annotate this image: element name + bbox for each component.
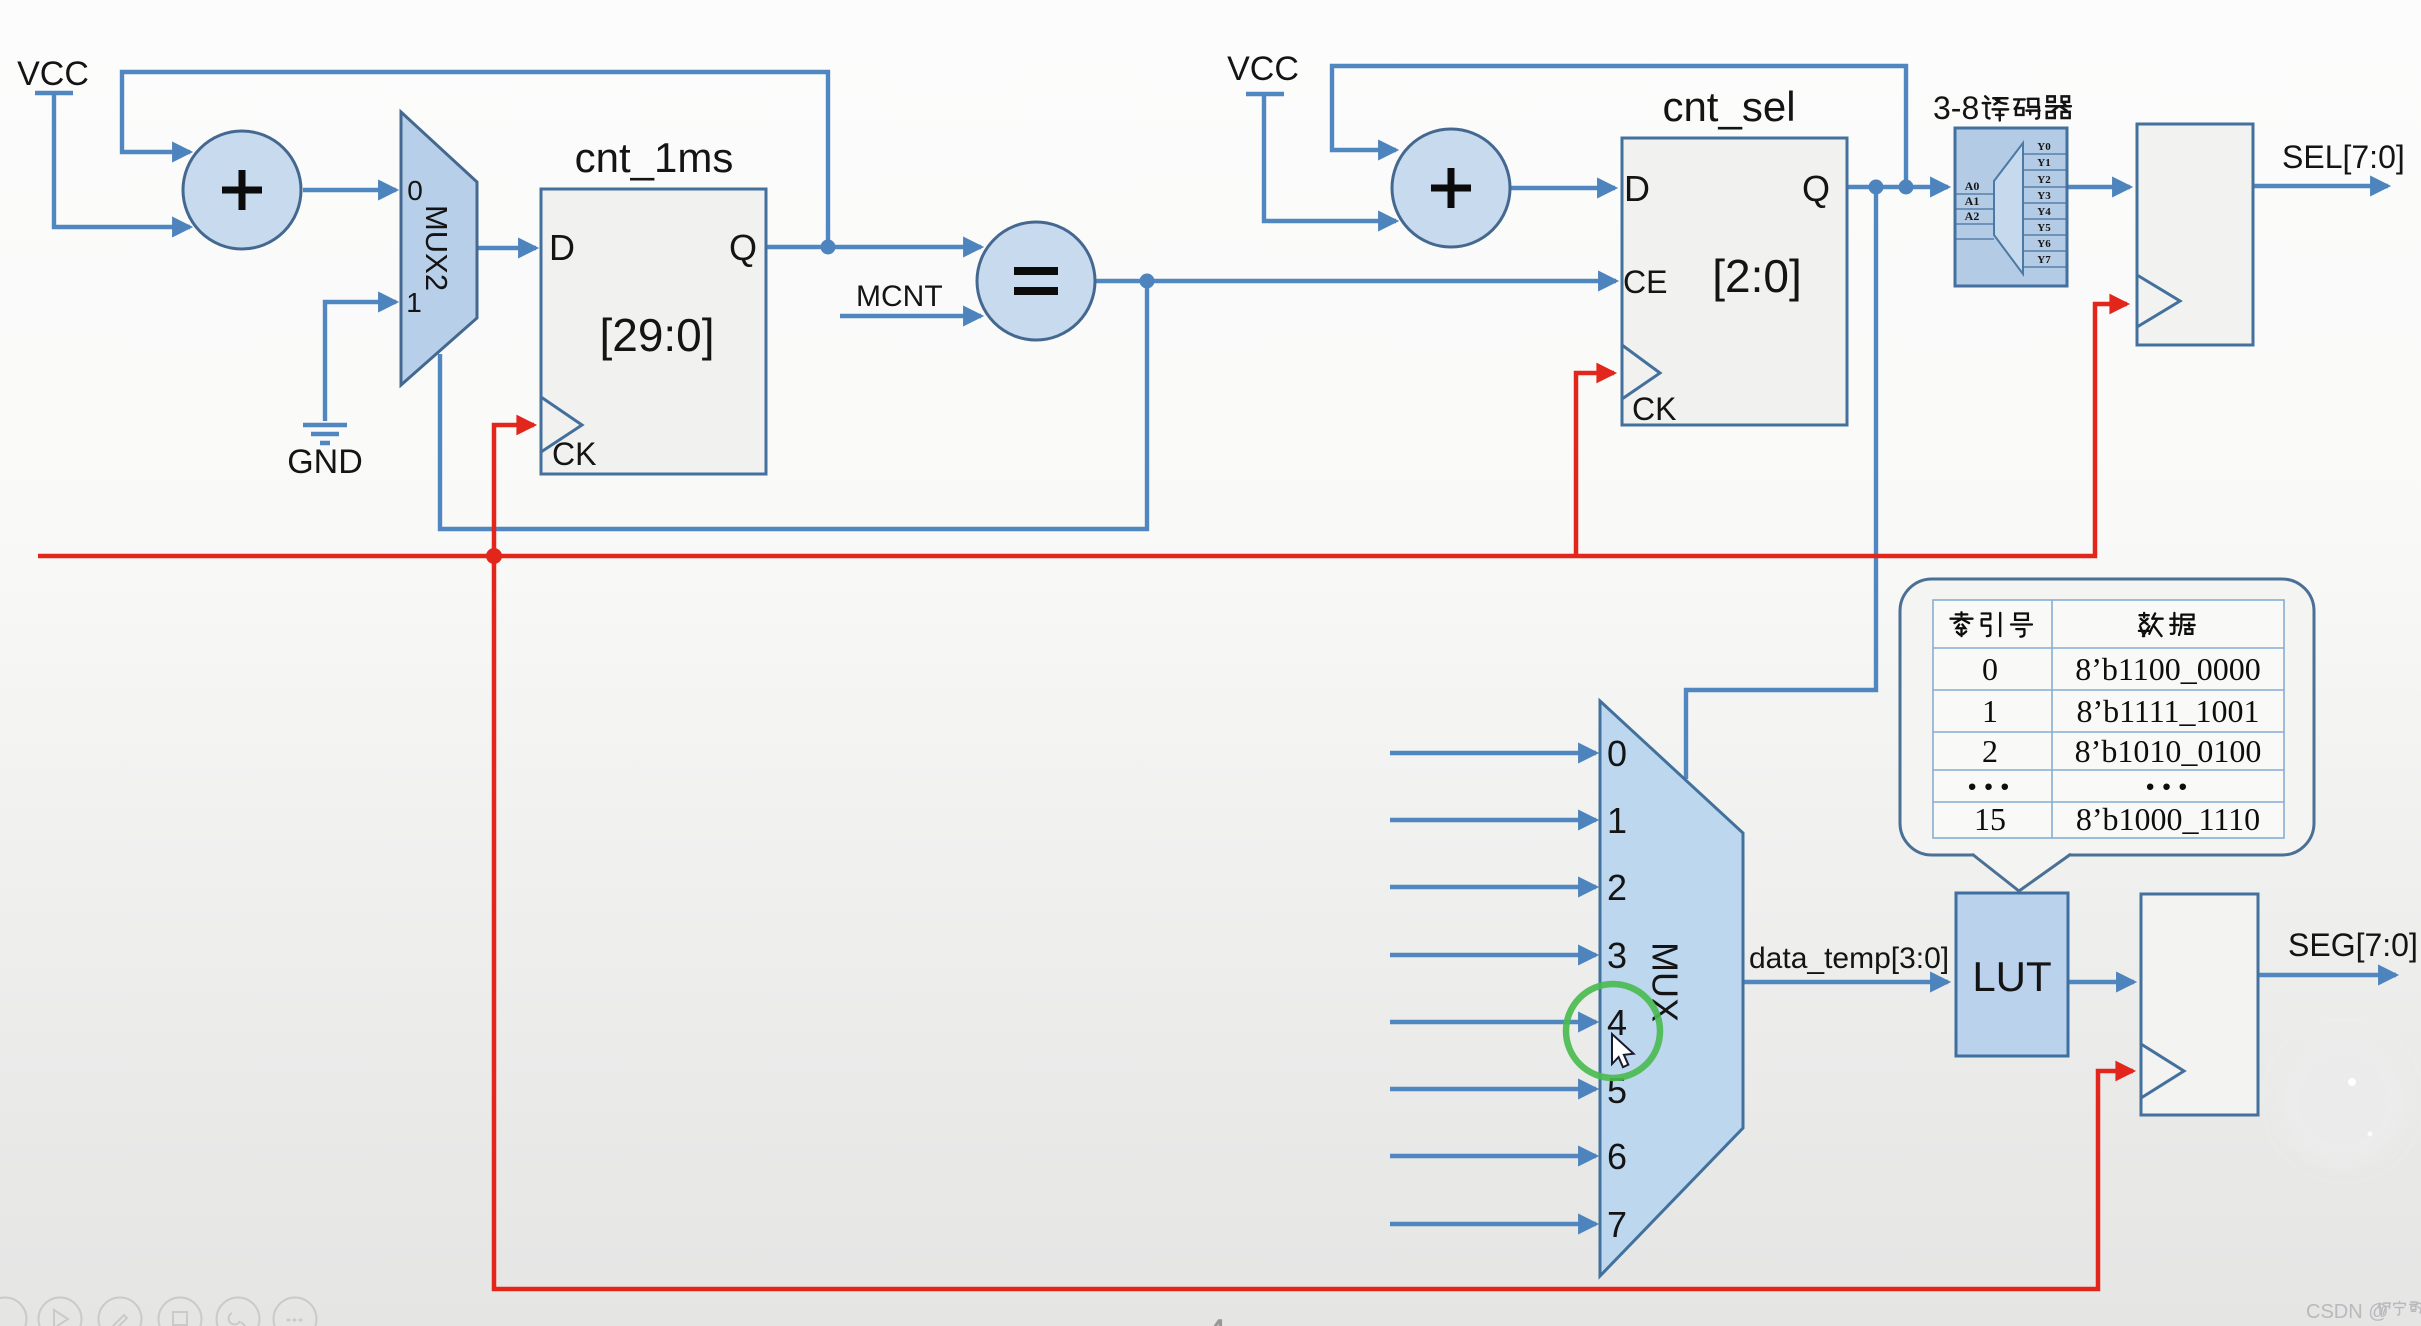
decoder output dividers: [2023, 154, 2067, 267]
node junction comparator output: [1140, 274, 1155, 289]
svg-text:CSDN @: CSDN @: [2306, 1301, 2389, 1323]
svg-text:D: D: [1624, 168, 1650, 209]
wire red branch to cnt_sel clock: [1576, 373, 1614, 556]
svg-text:D: D: [549, 227, 575, 268]
mouse cursor: [1612, 1034, 1634, 1067]
svg-text:8’b1111_1001: 8’b1111_1001: [2076, 693, 2259, 729]
svg-text:A1: A1: [1965, 194, 1980, 208]
decoder pin labels A0 A1 A2: [1965, 179, 1980, 223]
decoder input dividers: [1955, 194, 1994, 239]
svg-text:CE: CE: [1623, 264, 1667, 300]
counter cnt_1ms: [541, 189, 766, 474]
wire feedback Q cnt_sel to adder A2: [1332, 66, 1906, 187]
svg-text:Y3: Y3: [2037, 190, 2051, 202]
clock input triangle R2: [2141, 1044, 2184, 1098]
svg-text:data_temp[3:0]: data_temp[3:0]: [1749, 942, 1949, 975]
wire MUX input 2: [1390, 885, 1596, 889]
clock input triangle R1: [2137, 275, 2180, 327]
wire MUX input 6: [1390, 1154, 1596, 1158]
faint player control buttons: [0, 1298, 317, 1326]
svg-text:0: 0: [407, 175, 423, 206]
wire adder A2 output to D of cnt_sel: [1510, 186, 1615, 190]
wire Q cnt_1ms to comparator: [766, 245, 981, 249]
wire MUX output data_temp to LUT: [1743, 980, 1948, 984]
node junction Q cnt_sel B: [1899, 180, 1914, 195]
svg-text:Q: Q: [1802, 168, 1830, 209]
decoder 3-8 box: [1955, 128, 2067, 286]
svg-text:Y1: Y1: [2037, 157, 2050, 169]
wire Q cnt_sel to decoder: [1847, 185, 1948, 189]
wire comparator output to CE of cnt_sel: [1095, 279, 1616, 283]
bubble tail: [1972, 852, 2071, 891]
svg-text:1: 1: [1607, 800, 1627, 841]
wire MUX input 0: [1390, 751, 1596, 755]
power VCC2 wire: [1246, 94, 1396, 221]
wire comparator output feedback to MUX2 select: [440, 281, 1147, 529]
svg-text:7: 7: [1607, 1204, 1627, 1245]
svg-text:A0: A0: [1965, 179, 1980, 193]
wire LUT output to register R2: [2068, 980, 2134, 984]
wire SEG output: [2258, 973, 2396, 977]
wire ground to MUX2 input 1: [325, 302, 396, 421]
wire MUX2 output to D of cnt_1ms: [477, 246, 536, 250]
svg-text:[2:0]: [2:0]: [1712, 250, 1802, 302]
svg-text:4: 4: [1204, 1310, 1227, 1326]
LUT box: [1956, 893, 2068, 1056]
wire MUX input 4: [1390, 1020, 1596, 1024]
wire adder A1 output to MUX2 input 0: [303, 188, 396, 192]
gray smudge blob: [2279, 1036, 2407, 1166]
svg-text:0: 0: [1607, 733, 1627, 774]
svg-text:1: 1: [1982, 693, 1998, 729]
svg-text:GND: GND: [287, 443, 363, 481]
svg-text:A2: A2: [1965, 209, 1980, 223]
wire SEL output: [2253, 184, 2388, 188]
svg-text:4: 4: [1607, 1002, 1627, 1043]
svg-text:3-8: 3-8: [1933, 90, 1979, 126]
node junction Q cnt_1ms: [821, 240, 836, 255]
node junction Q cnt_sel A: [1869, 180, 1884, 195]
mux MUX8: [1600, 701, 1743, 1276]
bubble outline: [1900, 579, 2314, 855]
svg-text:Y4: Y4: [2037, 206, 2051, 218]
svg-text:CK: CK: [1632, 391, 1676, 427]
svg-text:6: 6: [1607, 1136, 1627, 1177]
svg-text:Q: Q: [729, 227, 757, 268]
svg-text:0: 0: [1982, 651, 1998, 687]
svg-text:Y6: Y6: [2037, 238, 2051, 250]
svg-text:MCNT: MCNT: [856, 280, 943, 313]
wire MUX input 1: [1390, 818, 1596, 822]
svg-text:cnt_1ms: cnt_1ms: [575, 134, 734, 181]
comparator U=: [977, 222, 1095, 340]
register R1: [2137, 124, 2253, 345]
adder A2: [1392, 129, 1510, 247]
wire feedback Q cnt_1ms to adder A1: [122, 72, 828, 247]
mux MUX2: [401, 112, 477, 385]
decoder inner trapezoid: [1994, 143, 2023, 274]
svg-text:8’b1000_1110: 8’b1000_1110: [2076, 801, 2260, 837]
clock input triangle cnt_sel: [1622, 345, 1660, 399]
svg-text:8’b1100_0000: 8’b1100_0000: [2075, 651, 2260, 687]
register R2: [2141, 894, 2258, 1115]
ground symbol: [303, 425, 347, 443]
table header shu-ju: [2139, 613, 2163, 636]
svg-text:VCC: VCC: [17, 55, 89, 93]
svg-text:cnt_sel: cnt_sel: [1662, 83, 1795, 130]
svg-text:SEG[7:0]: SEG[7:0]: [2288, 927, 2418, 963]
svg-text:MUX: MUX: [1644, 942, 1685, 1022]
wire MUX input 5: [1390, 1087, 1596, 1091]
table header suo-yin-hao: [1950, 612, 1972, 636]
svg-text:3: 3: [1607, 935, 1627, 976]
wire MUX input 3: [1390, 953, 1596, 957]
svg-text:LUT: LUT: [1972, 953, 2051, 1000]
svg-text:VCC: VCC: [1227, 50, 1299, 88]
svg-text:[29:0]: [29:0]: [599, 309, 714, 361]
table grid: [1933, 600, 2284, 838]
svg-text:Y5: Y5: [2037, 222, 2051, 234]
svg-text:Y0: Y0: [2037, 141, 2051, 153]
wire MCNT to comparator: [840, 314, 981, 318]
svg-text:Y2: Y2: [2037, 174, 2051, 186]
wire Q cnt_sel feedback to MUX select: [1686, 187, 1876, 779]
node red junction: [486, 548, 502, 564]
svg-text:SEL[7:0]: SEL[7:0]: [2282, 139, 2405, 175]
highlight green circle around MUX input 4: [1566, 984, 1660, 1078]
table data rows: [1965, 651, 2261, 837]
power VCC1 wire: [35, 93, 190, 227]
adder A1: [183, 131, 301, 249]
decoder pin labels Y0-Y7: [2037, 141, 2051, 266]
counter cnt_sel: [1622, 138, 1847, 425]
svg-text:MUX2: MUX2: [419, 205, 454, 291]
wire MUX input 7: [1390, 1222, 1596, 1226]
svg-text:Y7: Y7: [2037, 254, 2051, 266]
wire red main horizontal and up to register R1 clock: [38, 304, 2127, 556]
wire red down bottom and up to register R2 clock: [494, 556, 2133, 1289]
svg-text:2: 2: [1607, 867, 1627, 908]
wire red branch to cnt_1ms clock: [494, 425, 534, 556]
svg-text:1: 1: [406, 287, 422, 318]
wire decoder output to register R1: [2067, 185, 2130, 189]
clock input triangle cnt_1ms: [541, 397, 582, 452]
svg-text:15: 15: [1974, 801, 2006, 837]
